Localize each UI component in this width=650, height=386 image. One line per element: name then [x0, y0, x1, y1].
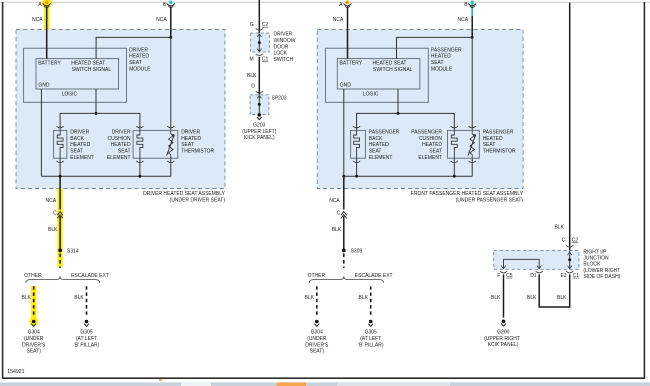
svg-text:G305: G305	[80, 330, 92, 336]
wire: GND pin down to bottom rail (passenger)	[343, 89, 345, 176]
connector A (driver)	[45, 1, 49, 5]
dashed wire: ESCALADE EXT branch to G305 (driver)	[86, 286, 88, 317]
svg-text:SEAT: SEAT	[369, 149, 382, 155]
svg-text:HEATED: HEATED	[181, 136, 201, 142]
svg-text:(UPPER LEFT): (UPPER LEFT)	[242, 129, 277, 135]
connector A (passenger)	[346, 1, 350, 5]
junction on bottom rail (passenger)	[342, 175, 345, 178]
svg-text:RIGHT I/P: RIGHT I/P	[583, 249, 607, 255]
svg-text:HEATED: HEATED	[369, 142, 389, 148]
svg-text:(UNDER PASSENGER SEAT): (UNDER PASSENGER SEAT)	[456, 198, 524, 204]
connector C2 symbol	[256, 29, 263, 31]
passenger back heated seat element (heater symbol)	[354, 130, 360, 158]
svg-text:THERMISTOR: THERMISTOR	[181, 149, 214, 155]
svg-text:BLK: BLK	[305, 295, 315, 301]
ground G304	[32, 320, 36, 324]
svg-text:DRIVER: DRIVER	[274, 32, 293, 38]
wire: assembly ground out to splice S309	[343, 176, 345, 209]
svg-text:ELEMENT: ELEMENT	[107, 155, 131, 161]
element bottom rail (driver)	[41, 175, 170, 177]
wire: B junction to HEATED SEAT SWITCH SIGNAL pin (passenger)	[397, 37, 473, 58]
dashed wire: OTHER branch to G304 (passenger)	[316, 286, 318, 317]
branch brace (driver)	[26, 276, 100, 283]
svg-text:SEAT): SEAT)	[310, 349, 325, 355]
svg-text:NCA: NCA	[156, 17, 167, 23]
svg-text:HEATED: HEATED	[422, 142, 442, 148]
connector D1 symbol	[536, 271, 543, 273]
svg-text:LOCK: LOCK	[274, 51, 288, 57]
svg-text:DRIVER'S: DRIVER'S	[305, 342, 329, 348]
svg-text:SEAT: SEAT	[118, 149, 131, 155]
svg-text:HEATED: HEATED	[70, 142, 90, 148]
junction on B wire (passenger)	[471, 36, 474, 39]
svg-text:BLK: BLK	[491, 295, 501, 301]
svg-text:F: F	[497, 273, 500, 279]
dashed wire: splice to brace (passenger)	[343, 254, 345, 269]
wire: pin D1 to pin E2 loop	[539, 274, 570, 307]
in-line connector C (passenger)	[341, 212, 347, 216]
driver cushion heated seat element / thermistor box	[133, 130, 178, 158]
svg-text:PASSENGER: PASSENGER	[483, 130, 514, 136]
passenger cushion heated seat element / thermistor box	[448, 130, 480, 158]
svg-text:OTHER: OTHER	[24, 273, 42, 279]
passenger heated seat module logic box (inner)	[337, 59, 420, 89]
svg-text:SIDE OF DASH): SIDE OF DASH)	[583, 274, 620, 280]
connector B (driver)	[169, 1, 173, 5]
svg-text:C2: C2	[262, 22, 269, 28]
svg-text:ESCALADE EXT: ESCALADE EXT	[71, 273, 109, 279]
ground G203	[258, 113, 262, 117]
svg-text:G: G	[250, 22, 254, 28]
svg-text:BLK: BLK	[21, 295, 31, 301]
cyan continuation highlight on connector B wire	[471, 4, 473, 16]
svg-text:ELEMENT: ELEMENT	[70, 155, 94, 161]
wire: switch to splice pack SP203	[258, 57, 260, 95]
bottom scrollbar bar	[0, 382, 650, 386]
svg-text:SWITCH: SWITCH	[274, 57, 294, 63]
dashed wire: ESCALADE EXT branch to G305 (passenger)	[370, 286, 372, 317]
wire: thermistor to bottom rail (driver)	[170, 158, 172, 176]
svg-text:LOGIC: LOGIC	[363, 92, 379, 98]
driver heated seat module logic box (inner)	[36, 59, 119, 89]
passenger back heated seat element box	[351, 130, 366, 158]
svg-text:LOGIC: LOGIC	[62, 92, 78, 98]
svg-text:SEAT: SEAT	[181, 142, 194, 148]
wire: cushion element to bottom rail (passenger)	[453, 158, 455, 176]
svg-text:SEAT): SEAT)	[27, 349, 42, 355]
svg-text:MODULE: MODULE	[129, 66, 151, 72]
svg-text:(UPPER RIGHT: (UPPER RIGHT	[484, 336, 520, 342]
highlighted circuit wire (yellow) at connector A	[44, 0, 49, 30]
junction on bottom rail (driver)	[59, 175, 62, 178]
wire: B junction to HEATED SEAT SWITCH SIGNAL pin (driver)	[96, 37, 171, 58]
svg-text:C: C	[53, 211, 57, 217]
svg-text:SEAT: SEAT	[70, 149, 83, 155]
page top border (light)	[0, 1, 650, 3]
highlighted circuit wire (yellow) below assembly	[57, 189, 62, 267]
passenger heated seat module box (outer)	[325, 48, 428, 102]
junction on B wire (driver)	[169, 36, 172, 39]
svg-text:D1: D1	[530, 273, 537, 279]
svg-text:154921: 154921	[7, 369, 24, 375]
SP203 internal wire	[258, 96, 260, 115]
svg-text:G304: G304	[311, 330, 323, 336]
ground G305	[85, 320, 89, 324]
svg-text:SWITCH SIGNAL: SWITCH SIGNAL	[373, 67, 413, 73]
dashed wire: splice to brace (driver)	[59, 254, 61, 269]
switch internal wire with arrows	[258, 34, 260, 51]
svg-text:BACK: BACK	[70, 136, 84, 142]
svg-text:HEATED: HEATED	[129, 54, 149, 60]
svg-text:(UNDER DRIVER SEAT): (UNDER DRIVER SEAT)	[170, 198, 226, 204]
wire: LOGIC out down to element rail (passenger)	[397, 89, 399, 113]
wire: B junction down to thermistor (driver)	[170, 37, 172, 130]
svg-text:DOOR: DOOR	[274, 44, 289, 50]
front passenger heated seat assembly dashed enclosure	[317, 30, 523, 189]
svg-text:BLK: BLK	[48, 227, 58, 233]
connector C2 symbol (junction block)	[566, 245, 573, 247]
wire: assembly ground out to splice S314	[59, 176, 61, 209]
svg-text:DRIVER: DRIVER	[112, 130, 131, 136]
svg-text:DRIVER HEATED SEAT ASSEMBLY: DRIVER HEATED SEAT ASSEMBLY	[143, 191, 226, 197]
svg-text:GND: GND	[38, 82, 50, 88]
svg-text:‘B’ PILLAR): ‘B’ PILLAR)	[74, 342, 100, 348]
driver heated seat module box (outer)	[24, 48, 127, 102]
connector C1 symbol (junction block)	[566, 271, 573, 273]
page bottom border	[2, 377, 645, 379]
svg-text:(AT LEFT: (AT LEFT	[360, 336, 381, 342]
splice S309	[342, 249, 346, 253]
svg-text:BLOCK: BLOCK	[583, 262, 601, 268]
svg-text:SWITCH SIGNAL: SWITCH SIGNAL	[72, 67, 112, 73]
svg-text:BLK: BLK	[557, 295, 567, 301]
svg-text:M: M	[250, 57, 254, 63]
right I/P junction block box	[494, 250, 579, 269]
svg-text:BLK: BLK	[554, 225, 564, 231]
svg-text:ELEMENT: ELEMENT	[369, 155, 393, 161]
svg-text:NCA: NCA	[333, 17, 344, 23]
svg-text:S309: S309	[351, 248, 363, 254]
element bottom rail (passenger)	[344, 175, 472, 177]
svg-text:THERMISTOR: THERMISTOR	[483, 149, 516, 155]
in-line connector C (driver)	[57, 212, 63, 216]
svg-text:C1: C1	[573, 273, 580, 279]
wire: top of page down to right I/P junction block	[569, 3, 571, 251]
driver cushion heated seat element (heater symbol)	[137, 130, 143, 158]
svg-text:BACK: BACK	[369, 136, 383, 142]
junction on bottom rail (passenger)	[355, 175, 358, 178]
junction block internal feed wire	[569, 250, 571, 269]
svg-text:G305: G305	[365, 330, 377, 336]
svg-text:NCA: NCA	[32, 17, 43, 23]
svg-text:GND: GND	[340, 82, 352, 88]
svg-text:G304: G304	[28, 330, 40, 336]
wire: pin F to ground G200	[503, 274, 505, 317]
svg-text:BATTERY: BATTERY	[38, 61, 61, 67]
passenger cushion heated seat element (heater symbol)	[451, 130, 457, 158]
svg-text:NCA: NCA	[46, 198, 57, 204]
svg-text:DRIVER: DRIVER	[181, 130, 200, 136]
junction on bottom rail (passenger)	[453, 175, 456, 178]
wire: cushion element to bottom rail (driver)	[139, 158, 141, 176]
SP203 internal junction	[258, 103, 261, 106]
svg-text:WINDOW: WINDOW	[274, 38, 296, 44]
wire: GND pin down to bottom rail (driver)	[40, 89, 42, 176]
svg-text:DRIVER'S: DRIVER'S	[22, 342, 46, 348]
junction logic/rail (driver)	[95, 112, 98, 115]
svg-text:ESCALADE EXT: ESCALADE EXT	[355, 273, 393, 279]
wire: connector B down to junction (passenger)	[471, 7, 473, 38]
wire: thermistor to bottom rail (passenger)	[471, 158, 473, 176]
junction block internal junction	[568, 258, 571, 261]
svg-text:PASSENGER: PASSENGER	[411, 130, 442, 136]
driver heated seat thermistor symbol	[169, 130, 173, 158]
svg-text:PASSENGER: PASSENGER	[431, 47, 462, 53]
wire: B junction down to thermistor (passenger)	[471, 37, 473, 130]
svg-text:C: C	[562, 238, 566, 244]
svg-text:OTHER: OTHER	[308, 273, 326, 279]
svg-text:PASSENGER: PASSENGER	[369, 130, 400, 136]
branch brace (passenger)	[309, 276, 383, 283]
switch internal junction	[258, 41, 261, 44]
svg-text:HEATED SEAT: HEATED SEAT	[373, 61, 407, 67]
svg-text:‘B’ PILLAR): ‘B’ PILLAR)	[358, 342, 384, 348]
ground G305	[369, 320, 373, 324]
wire: element to bottom rail (driver back element)	[59, 158, 61, 176]
svg-text:SEAT: SEAT	[431, 60, 444, 66]
svg-text:S314: S314	[67, 248, 79, 254]
page right border	[643, 2, 645, 379]
svg-text:BLK: BLK	[358, 295, 368, 301]
wire: top of page down to driver window door lock switch	[258, 0, 260, 33]
svg-text:CUSHION: CUSHION	[419, 136, 442, 142]
svg-text:HEATED SEAT: HEATED SEAT	[71, 61, 105, 67]
svg-text:BLK: BLK	[332, 227, 342, 233]
svg-text:SP203: SP203	[272, 95, 287, 101]
svg-text:SEAT: SEAT	[483, 142, 496, 148]
connector B (passenger)	[470, 1, 474, 5]
svg-text:G203: G203	[253, 122, 265, 128]
svg-text:G200: G200	[497, 329, 509, 335]
dashed wire: OTHER branch to G304 (driver)	[33, 286, 35, 317]
svg-text:DRIVER: DRIVER	[129, 47, 148, 53]
svg-text:(LOWER RIGHT: (LOWER RIGHT	[583, 268, 620, 274]
connector symbol above SP203	[256, 91, 263, 93]
svg-text:MODULE: MODULE	[431, 66, 453, 72]
svg-text:JUNCTION: JUNCTION	[583, 256, 609, 262]
svg-text:KCIK PANEL): KCIK PANEL)	[488, 342, 519, 348]
svg-text:BLK: BLK	[247, 73, 257, 79]
svg-text:SEAT: SEAT	[429, 149, 442, 155]
svg-text:NCA: NCA	[458, 17, 469, 23]
svg-text:HEATED: HEATED	[483, 136, 503, 142]
svg-text:C2: C2	[572, 238, 579, 244]
wire: connector A to BATTERY pin (driver)	[46, 7, 48, 59]
connector C5 symbol	[500, 271, 507, 273]
wire: LOGIC out down to element rail (driver)	[95, 89, 97, 113]
svg-text:FRONT PASSENGER HEATED SEAT AS: FRONT PASSENGER HEATED SEAT ASSEMBLY	[411, 191, 524, 197]
element top rail (driver)	[60, 113, 140, 130]
driver window door lock switch box	[250, 33, 269, 52]
page left border	[2, 2, 4, 379]
connector C1 symbol	[256, 54, 263, 56]
svg-text:NCA: NCA	[329, 198, 340, 204]
svg-text:HEATED: HEATED	[111, 142, 131, 148]
svg-text:BATTERY: BATTERY	[340, 61, 363, 67]
svg-text:BLK: BLK	[74, 295, 84, 301]
wire: connector B down to junction (driver)	[170, 7, 172, 38]
junction block internal bus wire	[504, 259, 540, 269]
passenger heated seat thermistor symbol	[470, 130, 474, 158]
svg-text:C5: C5	[506, 273, 513, 279]
driver back heated seat element (heater symbol)	[57, 130, 63, 158]
svg-text:C1: C1	[262, 57, 269, 63]
junction logic/rail (passenger)	[397, 112, 400, 115]
wire: element to bottom rail (passenger back element)	[356, 158, 358, 176]
svg-text:C: C	[337, 211, 341, 217]
ground G200	[502, 320, 506, 324]
svg-text:(AT LEFT: (AT LEFT	[76, 336, 97, 342]
element top rail (passenger)	[357, 113, 455, 130]
svg-text:DRIVER: DRIVER	[70, 130, 89, 136]
svg-text:E2: E2	[560, 273, 566, 279]
svg-text:SEAT: SEAT	[129, 60, 142, 66]
svg-text:D: D	[251, 83, 255, 89]
svg-text:(UNDER: (UNDER	[307, 336, 327, 342]
svg-text:CUSHION: CUSHION	[108, 136, 131, 142]
ground G304	[315, 320, 319, 324]
driver heated seat assembly dashed enclosure	[16, 30, 225, 189]
driver back heated seat element box	[54, 130, 67, 158]
svg-text:BLK: BLK	[527, 295, 537, 301]
splice S314	[58, 249, 62, 253]
svg-text:ELEMENT: ELEMENT	[418, 155, 442, 161]
svg-text:KICK PANEL): KICK PANEL)	[244, 135, 275, 141]
svg-text:(UNDER: (UNDER	[24, 336, 44, 342]
splice pack SP203 box	[250, 95, 269, 115]
wire: connector A to BATTERY pin (passenger)	[347, 7, 349, 59]
junction on bottom rail (driver)	[139, 175, 142, 178]
highlighted branch wire (yellow) to G304	[31, 286, 36, 318]
svg-text:HEATED: HEATED	[431, 54, 451, 60]
